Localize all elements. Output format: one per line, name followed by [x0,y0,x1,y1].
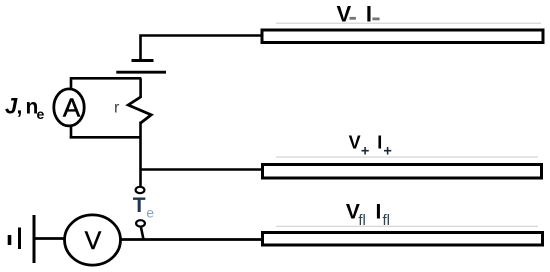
svg-text:fl: fl [358,212,366,229]
svg-text:e: e [37,106,45,122]
wire tee to middle probe [141,168,263,171]
svg-text:I: I [366,2,372,27]
faint rule above middle probe [276,156,538,157]
wire ammeter loop bottom [70,126,142,137]
ground chassis [33,215,36,263]
voltmeter V1 [65,215,121,265]
battery B1 short plate [132,59,154,62]
svg-text:r: r [114,99,120,116]
wire top feed to upper probe [141,36,262,62]
probe electrode upper [262,30,543,43]
svg-text:I: I [376,200,382,223]
probe electrode floating [263,233,543,246]
svg-text:T: T [133,194,146,217]
ammeter A1 [54,89,84,126]
svg-text:fl: fl [383,212,391,229]
svg-text:+: + [383,144,391,160]
svg-text:+: + [361,144,369,160]
probe electrode middle [263,165,542,179]
faint rule above floating probe [276,226,538,227]
wire resistor down through tee to node [139,122,142,188]
wire ammeter loop top [71,78,141,89]
svg-text:V: V [85,227,102,255]
wire lower terminal to floating line [141,226,144,239]
svg-text:V: V [337,2,352,27]
wire battery to resistor [139,78,142,98]
svg-text:I: I [377,132,382,152]
connector node upper terminal [136,187,145,193]
wire ground to voltmeter [35,237,65,240]
wire voltmeter to floating probe [121,238,262,241]
resistor r zigzag [128,97,151,123]
svg-text:e: e [146,205,154,221]
svg-text:A: A [63,93,81,123]
connector node lower terminal [136,220,145,226]
battery B1 long plate [116,71,166,74]
svg-text:V: V [349,132,361,152]
faint rule above upper probe [276,23,541,24]
svg-text:,: , [17,96,23,119]
